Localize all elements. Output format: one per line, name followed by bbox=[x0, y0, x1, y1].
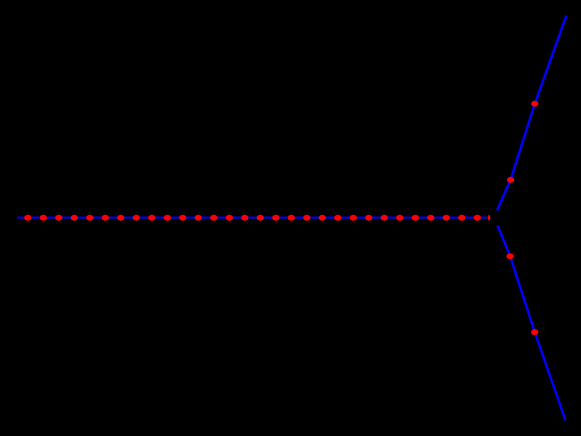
marker dots on upper branch bbox=[507, 101, 538, 183]
upper bifurcated branch line bbox=[497, 16, 566, 211]
bifurcation point marker (narrow) bbox=[488, 215, 490, 221]
lower bifurcated branch line bbox=[498, 225, 566, 420]
marker dots on lower branch bbox=[506, 253, 538, 335]
trivial branch line (horizontal) bbox=[17, 217, 488, 219]
marker dots on horizontal branch bbox=[24, 215, 481, 221]
